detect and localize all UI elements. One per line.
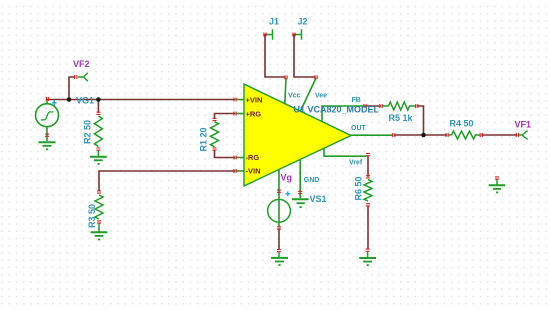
junction node OUT (421, 133, 426, 138)
plus mark of VG1 (52, 101, 57, 106)
resistor R4 (448, 131, 480, 139)
ground of VS1 (271, 252, 288, 265)
ground of VG1 (39, 142, 56, 149)
svg-text:R4 50: R4 50 (450, 118, 474, 128)
svg-text:+RG: +RG (246, 109, 262, 118)
svg-text:VF1: VF1 (515, 119, 532, 129)
junction node A (67, 97, 72, 102)
svg-text:R1 20: R1 20 (199, 127, 209, 151)
lone ground right (489, 180, 505, 193)
svg-text:Vcc: Vcc (288, 93, 301, 100)
wire R1 bottom to -RG (215, 151, 235, 158)
op-amp U1 VCA820_MODEL body (244, 84, 351, 186)
wire R5 right to OUT node (418, 106, 424, 134)
pin +VIN stub (236, 99, 244, 101)
pin OUT (351, 134, 393, 136)
wire junction to VF2 test point (69, 77, 75, 100)
resistor R6 (364, 180, 372, 202)
wire VS1 bottom to ground (278, 229, 280, 249)
svg-text:U1 VCA820_MODEL: U1 VCA820_MODEL (294, 104, 380, 114)
wire VG1 to +VIN (48, 99, 235, 101)
voltage source VG1 (36, 100, 59, 141)
junction node B (96, 97, 101, 102)
wire -VIN to R3 (99, 171, 235, 190)
svg-text:R5 1k: R5 1k (389, 113, 414, 123)
ground of GND pin (292, 199, 309, 207)
svg-text:GND: GND (304, 177, 320, 184)
plus mark of VS1 (285, 191, 290, 196)
wire R4 to VF1 test point (482, 134, 517, 136)
svg-text:VG1: VG1 (76, 95, 94, 105)
svg-text:R3 50: R3 50 (87, 204, 97, 228)
svg-text:R6 50: R6 50 (354, 176, 364, 200)
resistor R3 (95, 195, 103, 219)
pin Vee (301, 78, 317, 111)
pin GND (299, 160, 301, 198)
wire R6 bottom to ground (367, 207, 369, 249)
test point VF2 probe (78, 73, 88, 82)
pin Vcc (285, 78, 286, 104)
svg-text:Vg: Vg (281, 173, 293, 183)
wire +RG to R1 top (215, 114, 235, 118)
wire Vref corner down to R6 (367, 157, 369, 176)
svg-text:FB: FB (352, 97, 361, 104)
pin FB (322, 106, 365, 122)
wire J1 to Vcc pin (265, 35, 285, 78)
pin -VIN stub (236, 170, 244, 172)
wire FB pin to R5 (366, 105, 381, 107)
svg-text:R2 50: R2 50 (83, 120, 93, 144)
svg-text:J1: J1 (269, 16, 279, 26)
ground of R2 (90, 157, 107, 164)
svg-text:OUT: OUT (351, 125, 367, 132)
pin -RG stub (236, 157, 244, 159)
pin Vref (324, 149, 367, 157)
test point VF1 probe (519, 131, 528, 140)
resistor R2 (94, 116, 102, 147)
terminal marks (red) (45, 33, 518, 252)
ground of R6 (359, 252, 376, 265)
wire J2 to Vee pin (294, 35, 315, 78)
svg-text:J2: J2 (298, 16, 308, 26)
svg-text:Vee: Vee (315, 93, 327, 100)
pin +RG stub (236, 113, 244, 115)
pin Vg (278, 170, 280, 228)
wire junction down to R2 (97, 100, 99, 113)
svg-text:+VIN: +VIN (246, 95, 263, 104)
resistor R5 (382, 102, 416, 110)
resistor R1 (211, 122, 219, 147)
jumper J1 (266, 29, 273, 40)
svg-text:VS1: VS1 (310, 194, 327, 204)
wire OUT to R4 (395, 134, 447, 136)
voltage source VS1 (268, 199, 291, 222)
ground of R3 (91, 232, 108, 239)
svg-text:VF2: VF2 (73, 59, 90, 69)
svg-text:Vref: Vref (349, 159, 363, 166)
svg-text:-VIN: -VIN (246, 167, 261, 176)
jumper J2 (295, 29, 302, 40)
svg-text:-RG: -RG (246, 153, 260, 162)
